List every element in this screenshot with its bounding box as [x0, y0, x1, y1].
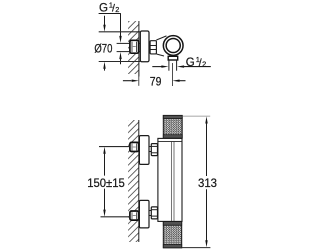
svg-text:Ø70: Ø70: [94, 44, 112, 56]
wall face line (top drawing): [138, 21, 140, 77]
bottom union neck (bottom drawing): [149, 210, 152, 212]
top union neck (bottom drawing): [149, 146, 152, 148]
outlet pipe G1/2 (top drawing): [168, 60, 170, 71]
79 dimension wall extension line: [138, 72, 140, 86]
top inlet swivel nut (bottom drawing): [151, 144, 157, 156]
313 dimension line lower with down arrow: [206, 189, 208, 242]
79 dimension left arrow: [123, 80, 132, 82]
svg-text:313: 313: [198, 176, 217, 190]
svg-text:2: 2: [115, 5, 119, 14]
holder mounting nut (top drawing): [150, 41, 156, 54]
pipe stubs wall to flange (top drawing): [139, 43, 141, 45]
150±15 dimension line lower with down arrow: [104, 189, 106, 212]
bottom inlet swivel nut (bottom drawing): [151, 207, 157, 219]
wall face line (bottom drawing): [138, 120, 140, 242]
G 1/2 top leader line down: [120, 14, 122, 37]
holder arm (top drawing): [156, 36, 166, 56]
313 dimension line upper with up arrow: [205, 116, 207, 123]
G 1/2 outlet dimension left arrow: [152, 66, 162, 68]
bottom knob (bottom drawing): [163, 222, 181, 248]
G 1/2 outlet dimension right arrow: [177, 65, 184, 67]
top knob (bottom drawing): [163, 115, 182, 138]
escutcheon flange Ø70 (top drawing): [140, 31, 149, 62]
shower holder ring (top drawing): [163, 36, 183, 56]
outlet centre/extension line (top drawing): [172, 63, 174, 86]
svg-text:150±15: 150±15: [87, 176, 125, 190]
top union nut in wall (bottom drawing): [130, 142, 139, 151]
150±15 extension line bottom: [101, 216, 130, 218]
Ø70 dimension arrow down: [104, 16, 106, 26]
outlet collar (top drawing): [168, 56, 178, 60]
Ø70 dimension extension line bottom: [99, 61, 141, 63]
G 1/2 top arrow up (tip at pipe bottom): [119, 52, 121, 59]
svg-text:G: G: [99, 3, 108, 15]
mixer body (bottom drawing): [158, 138, 182, 221]
313 extension line top: [182, 115, 210, 117]
150±15 dimension line upper with up arrow: [103, 147, 105, 154]
313 extension line bottom: [182, 247, 211, 249]
mixer body top seam: [158, 140, 182, 142]
G 1/2 top arrow down (tip at pipe top): [119, 36, 121, 43]
svg-text:2: 2: [202, 60, 206, 69]
G 1/2 outlet label underline: [183, 66, 211, 68]
Ø70 dimension extension line top: [99, 31, 141, 33]
150±15 extension line top: [99, 146, 130, 148]
79 dimension right arrow: [173, 80, 180, 82]
bottom union nut in wall (bottom drawing): [130, 211, 139, 220]
svg-text:G: G: [186, 57, 195, 69]
union nut in wall (top drawing): [130, 40, 139, 53]
G 1/2 top label underline: [99, 13, 121, 15]
wall hatch (top drawing): [128, 21, 139, 74]
top union escutcheon (bottom drawing): [139, 136, 149, 165]
G 1/2 top label text: [99, 0, 119, 14]
G 1/2 outlet label text: [186, 55, 206, 69]
inlet pipe in wall (top drawing): [117, 42, 131, 44]
mixer body inner lines: [171, 141, 173, 221]
svg-text:79: 79: [150, 76, 162, 88]
bottom union escutcheon (bottom drawing): [139, 200, 149, 228]
wall hatch (bottom drawing): [128, 120, 139, 242]
Ø70 dimension arrow up: [103, 62, 105, 69]
